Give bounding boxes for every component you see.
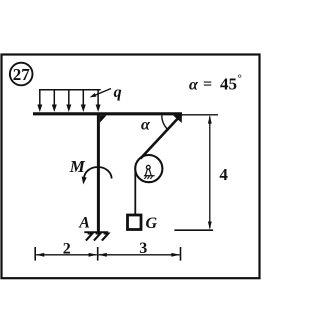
angle alpha arc	[162, 115, 168, 129]
svg-text:=: =	[203, 76, 212, 93]
ground hatch 3	[102, 234, 108, 241]
weight G box	[128, 215, 142, 230]
dimension line 3	[98, 253, 180, 257]
distributed load q: top line	[39, 89, 101, 91]
moment M arc	[82, 167, 112, 184]
pulley axle symbol	[144, 165, 155, 178]
pulley	[135, 155, 162, 182]
ground hatch 1	[86, 234, 92, 241]
support ground line at A	[84, 231, 108, 233]
svg-text:α: α	[189, 77, 199, 94]
dimension line 4 (vertical)	[208, 115, 212, 230]
extension line right of junction	[182, 114, 218, 116]
inclined rope segment	[141, 115, 182, 159]
dimension line 2	[36, 253, 97, 257]
gusset at beam/rope junction	[173, 115, 182, 124]
svg-text:45: 45	[220, 75, 237, 94]
beam (horizontal member)	[33, 112, 182, 115]
load arrow 4	[81, 90, 86, 112]
problem number badge 27	[10, 63, 33, 86]
dim tick right	[180, 247, 182, 261]
svg-text:G: G	[146, 215, 158, 232]
svg-text:2: 2	[63, 241, 71, 258]
dim tick middle	[97, 247, 99, 261]
svg-text:3: 3	[139, 240, 147, 257]
svg-text:A: A	[78, 215, 90, 232]
svg-text:q: q	[114, 84, 122, 101]
border frame	[2, 55, 260, 279]
svg-text:4: 4	[219, 165, 228, 184]
load arrow 3	[66, 90, 71, 112]
load arrow 5	[96, 90, 101, 112]
label alpha = 45 deg	[189, 73, 242, 94]
rope down from pulley to load G	[134, 170, 136, 214]
svg-text:α: α	[141, 117, 151, 134]
svg-text:27: 27	[13, 65, 31, 84]
dim tick left	[34, 247, 36, 261]
leader line to q	[90, 89, 111, 98]
svg-text:M: M	[69, 157, 86, 176]
ground hatch 2	[94, 234, 100, 241]
load arrow 1	[37, 90, 42, 112]
load arrow 2	[52, 90, 57, 112]
svg-text:°: °	[238, 73, 242, 85]
gusset at beam/bar junction	[100, 115, 107, 122]
bottom reference line for dim 4	[174, 229, 213, 231]
vertical bar	[97, 114, 100, 234]
